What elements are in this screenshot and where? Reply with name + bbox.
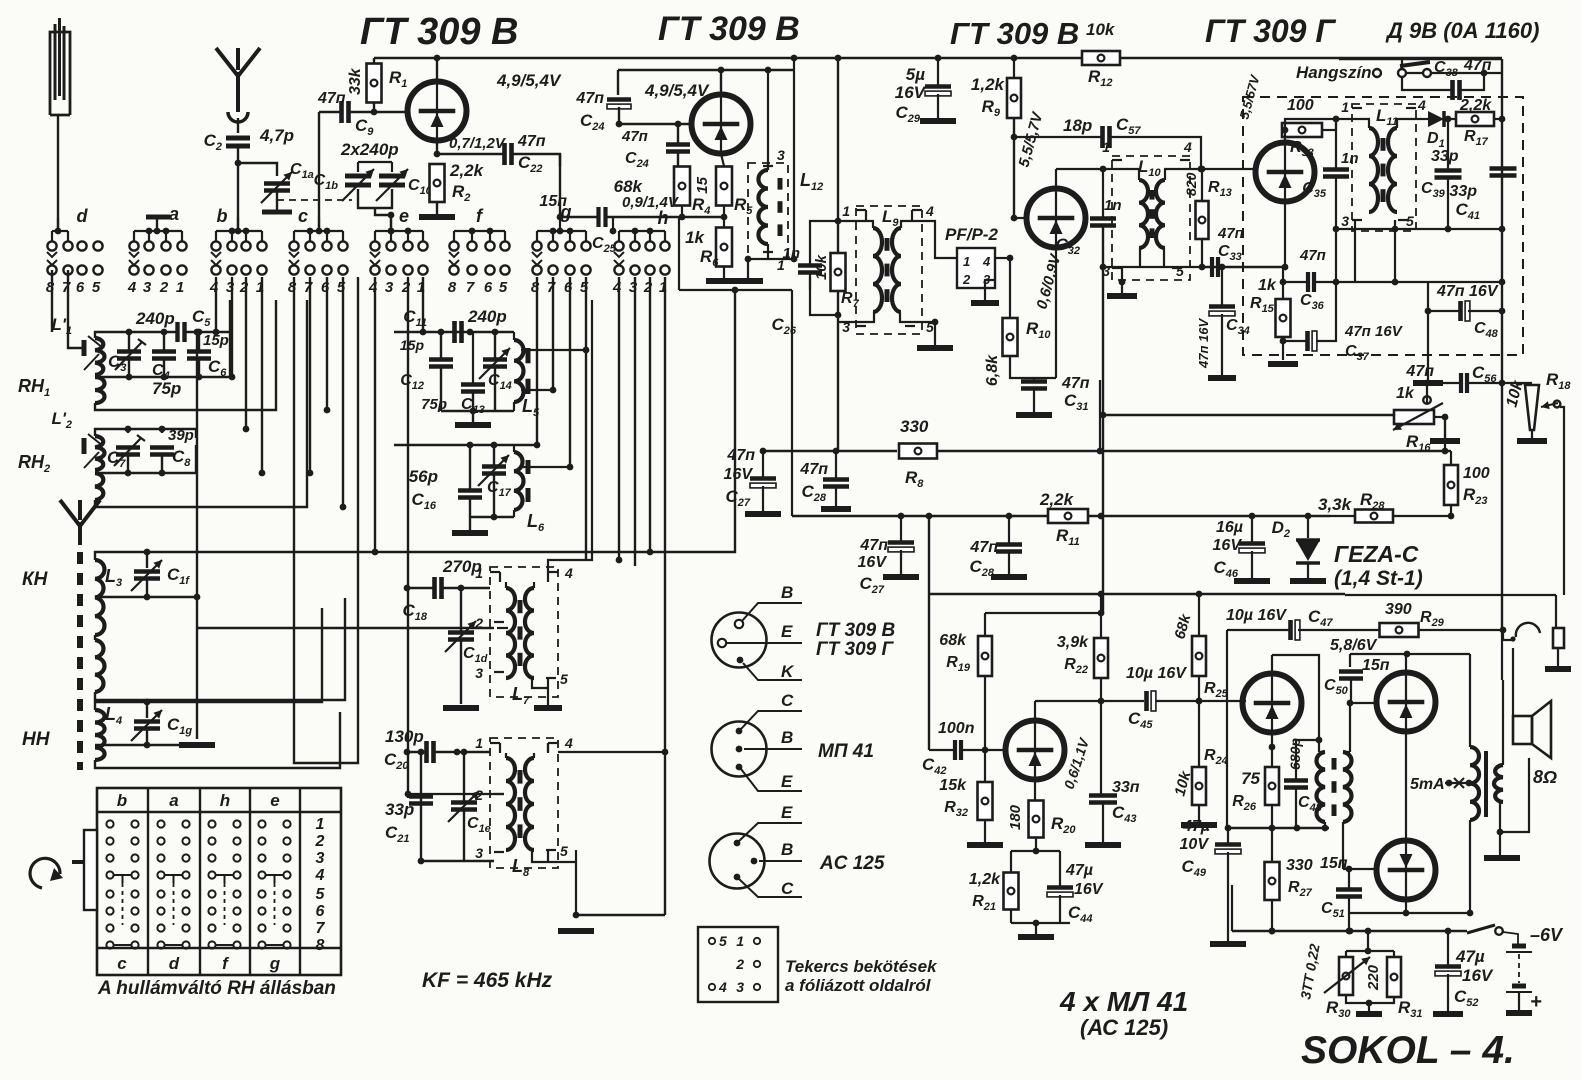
ground bbox=[1290, 578, 1326, 584]
pin 5 bbox=[1398, 213, 1414, 229]
wire bbox=[678, 217, 680, 290]
pot R30 bbox=[1324, 957, 1370, 995]
labels 8765 bbox=[531, 279, 589, 296]
svg-text:R23: R23 bbox=[1463, 485, 1488, 507]
wire bbox=[647, 277, 654, 555]
label C38 bbox=[1434, 59, 1459, 79]
wire bbox=[1560, 407, 1564, 595]
wire bbox=[469, 445, 471, 517]
core tick bbox=[82, 438, 87, 454]
label R16 bbox=[1406, 432, 1431, 454]
capacitor C44 bbox=[1047, 888, 1073, 897]
svg-text:4: 4 bbox=[718, 979, 727, 995]
wire bbox=[900, 516, 902, 574]
pin 3 bbox=[1102, 263, 1122, 279]
wire bottom bbox=[95, 445, 196, 476]
capacitor C21 bbox=[409, 797, 433, 804]
label 18p bbox=[1063, 116, 1092, 135]
wire bbox=[1448, 451, 1455, 519]
transistor T1 bbox=[408, 82, 467, 141]
wire bbox=[1251, 516, 1253, 578]
svg-text:R30: R30 bbox=[1326, 998, 1351, 1020]
wire bbox=[1355, 228, 1502, 230]
wire bus bbox=[1102, 267, 1104, 613]
svg-text:C18: C18 bbox=[402, 601, 427, 623]
svg-text:C8: C8 bbox=[172, 447, 191, 469]
svg-text:C1b: C1b bbox=[314, 172, 339, 192]
transistor T3 bbox=[1027, 189, 1086, 248]
lead B bbox=[744, 728, 802, 749]
label 47n bbox=[517, 133, 546, 150]
coil L8 secondary bbox=[525, 753, 534, 850]
caption bbox=[97, 978, 336, 999]
label c bbox=[298, 206, 308, 226]
wire bbox=[94, 635, 96, 640]
table frame bbox=[97, 788, 341, 975]
label R25 bbox=[1204, 680, 1229, 700]
wire bbox=[1269, 733, 1276, 767]
label 16V bbox=[724, 466, 754, 483]
wire bbox=[237, 146, 239, 231]
wire bbox=[1445, 780, 1472, 787]
coil L7 secondary bbox=[525, 582, 534, 678]
svg-text:B: B bbox=[781, 728, 793, 747]
pin numbers bbox=[962, 254, 991, 287]
label C36 bbox=[1300, 292, 1325, 312]
wire bbox=[762, 451, 764, 511]
svg-text:3: 3 bbox=[475, 845, 483, 861]
label AC125 bbox=[1080, 1015, 1168, 1040]
wire bbox=[307, 277, 314, 476]
wire bbox=[1059, 851, 1061, 923]
capacitor C45 bbox=[1147, 691, 1156, 711]
box L9 bbox=[856, 206, 922, 334]
resistor R10 bbox=[1003, 318, 1018, 356]
wire bbox=[1355, 220, 1395, 229]
label e bbox=[399, 206, 409, 226]
pin 5 bbox=[546, 843, 568, 859]
svg-text:C1f: C1f bbox=[167, 565, 190, 587]
wire top bbox=[125, 426, 196, 438]
wire bbox=[1014, 217, 1027, 219]
svg-text:R15: R15 bbox=[1250, 295, 1275, 315]
labels 8765 bbox=[46, 279, 101, 296]
pin 3 bbox=[1341, 213, 1362, 229]
coil L9 secondary bbox=[892, 221, 901, 312]
svg-text:C39: C39 bbox=[1421, 180, 1446, 200]
wire bbox=[1503, 932, 1518, 944]
capacitor C16 bbox=[458, 491, 482, 498]
wire bbox=[1196, 676, 1203, 704]
coil L10 secondary bbox=[1156, 169, 1165, 248]
label C5 bbox=[192, 307, 211, 329]
label 68k bbox=[939, 632, 967, 649]
wire feedback bbox=[1227, 825, 1329, 832]
variable capacitor C10 bbox=[376, 162, 408, 201]
bar bbox=[146, 217, 170, 231]
label 2,2k bbox=[449, 161, 485, 180]
svg-text:KF = 465 kHz: KF = 465 kHz bbox=[422, 969, 553, 992]
antenna bbox=[216, 48, 260, 112]
trimmer C3 bbox=[115, 339, 146, 370]
label 5,5/5,7V bbox=[1015, 109, 1046, 169]
wire bbox=[1406, 72, 1423, 74]
battery cell bbox=[1506, 986, 1532, 992]
label L5 bbox=[522, 396, 540, 419]
capacitor C27b bbox=[888, 543, 914, 552]
coil L11 primary bbox=[1369, 119, 1378, 212]
label 15n bbox=[539, 193, 567, 210]
capacitor C57 bbox=[1103, 126, 1110, 148]
wire bbox=[404, 585, 434, 592]
wire bbox=[1444, 417, 1446, 438]
wire bbox=[1033, 378, 1035, 412]
svg-text:L8: L8 bbox=[512, 856, 530, 879]
svg-text:+: + bbox=[1530, 991, 1542, 1013]
wire bbox=[1227, 852, 1229, 941]
diode D1 bbox=[1421, 111, 1444, 127]
capacitor C13 bbox=[461, 385, 485, 392]
wire bbox=[900, 312, 935, 322]
pot wiper bbox=[1541, 401, 1560, 410]
label 47u bbox=[1455, 947, 1485, 966]
svg-text:R13: R13 bbox=[1208, 179, 1232, 199]
label R2 bbox=[452, 182, 470, 204]
svg-text:5: 5 bbox=[560, 671, 568, 687]
svg-text:1: 1 bbox=[963, 254, 970, 269]
label R28 bbox=[1360, 490, 1385, 512]
wire bbox=[472, 332, 474, 384]
svg-text:5: 5 bbox=[560, 843, 568, 859]
wire bbox=[723, 206, 725, 227]
svg-text:3: 3 bbox=[316, 850, 325, 867]
wire bbox=[1010, 851, 1012, 923]
svg-text:4: 4 bbox=[1417, 97, 1426, 113]
pin 4 bbox=[548, 565, 573, 582]
wire bbox=[679, 289, 792, 291]
label 47n bbox=[859, 537, 888, 554]
wire bbox=[1512, 648, 1514, 716]
wire bbox=[1396, 118, 1421, 120]
plate bar bbox=[262, 210, 292, 215]
svg-text:f: f bbox=[476, 206, 484, 226]
wire bbox=[1319, 752, 1328, 831]
wire bbox=[1419, 627, 1506, 634]
wire bbox=[434, 749, 490, 756]
labels 8765 bbox=[448, 279, 508, 296]
node bbox=[434, 55, 441, 62]
svg-text:75: 75 bbox=[1241, 769, 1260, 788]
svg-text:C31: C31 bbox=[1064, 391, 1089, 413]
label 47n bbox=[726, 447, 755, 464]
svg-text:47п 16V: 47п 16V bbox=[1196, 318, 1211, 369]
wire bbox=[95, 300, 307, 507]
svg-text:240p: 240p bbox=[135, 309, 175, 328]
inner rail bbox=[618, 69, 794, 71]
wire bbox=[1343, 868, 1377, 870]
label R17 bbox=[1464, 128, 1489, 148]
resistor R22 bbox=[1094, 638, 1108, 678]
svg-text:2: 2 bbox=[735, 956, 744, 972]
jack hook bbox=[1510, 623, 1540, 642]
wire bbox=[129, 359, 199, 377]
svg-text:C42: C42 bbox=[922, 755, 947, 777]
wire bbox=[1444, 116, 1457, 123]
label a bbox=[169, 204, 179, 224]
svg-text:b: b bbox=[117, 791, 127, 810]
wire bbox=[1280, 279, 1307, 286]
box L7 bbox=[490, 567, 558, 697]
wire bbox=[442, 585, 490, 592]
label RH1 bbox=[18, 376, 50, 399]
label 47n bbox=[969, 539, 998, 556]
labels 4321 bbox=[612, 279, 667, 296]
resistor R27 bbox=[1265, 862, 1280, 900]
wire bbox=[1445, 450, 1451, 452]
wire bbox=[634, 277, 636, 566]
label C17 bbox=[487, 479, 512, 499]
svg-text:1k: 1k bbox=[1396, 385, 1415, 402]
svg-text:47п: 47п bbox=[517, 133, 546, 150]
node bbox=[434, 151, 441, 158]
svg-text:47п: 47п bbox=[1217, 225, 1244, 242]
svg-text:7: 7 bbox=[316, 920, 326, 937]
rail bbox=[1120, 57, 1502, 59]
svg-text:240p: 240p bbox=[467, 307, 507, 326]
svg-text:R11: R11 bbox=[1056, 526, 1080, 548]
wire bbox=[1322, 119, 1336, 130]
label 330 bbox=[900, 417, 929, 436]
svg-text:R17: R17 bbox=[1464, 128, 1489, 148]
svg-text:C25: C25 bbox=[592, 235, 617, 255]
svg-text:PF/P-2: PF/P-2 bbox=[945, 225, 998, 244]
svg-text:130p: 130p bbox=[385, 727, 424, 746]
pinout MP41 bbox=[712, 722, 767, 777]
wire bbox=[982, 676, 989, 753]
svg-text:3,9k: 3,9k bbox=[1057, 634, 1089, 651]
wire bbox=[1298, 629, 1380, 631]
label C1d bbox=[463, 645, 488, 665]
capacitor C27a bbox=[750, 479, 776, 488]
wire bbox=[1196, 591, 1203, 636]
node bbox=[835, 312, 842, 319]
svg-text:E: E bbox=[781, 772, 793, 791]
svg-text:R9: R9 bbox=[982, 97, 1001, 119]
svg-text:C51: C51 bbox=[1321, 900, 1345, 920]
wire bbox=[319, 111, 341, 113]
core bbox=[518, 600, 523, 666]
wire bbox=[1199, 166, 1206, 201]
capacitor C52 bbox=[1435, 967, 1461, 976]
capacitor C24b bbox=[666, 145, 690, 152]
wire bbox=[1469, 654, 1471, 747]
label 1n bbox=[1104, 197, 1122, 214]
wire bbox=[1346, 951, 1394, 957]
resistor R25 bbox=[1192, 636, 1206, 676]
label C44 bbox=[1068, 903, 1093, 925]
svg-text:R4: R4 bbox=[692, 195, 710, 217]
label GT309B bbox=[658, 10, 800, 48]
svg-text:R21: R21 bbox=[972, 893, 996, 913]
wire rail R11 bbox=[792, 513, 1048, 520]
svg-text:R16: R16 bbox=[1406, 432, 1431, 454]
svg-text:220: 220 bbox=[1365, 964, 1382, 991]
box L10 bbox=[1112, 156, 1190, 280]
svg-text:R8: R8 bbox=[905, 468, 924, 490]
label 47n bbox=[575, 90, 604, 107]
resistor R6 bbox=[716, 228, 732, 267]
svg-text:C16: C16 bbox=[411, 490, 436, 512]
switch group b bbox=[211, 217, 267, 275]
label R27 bbox=[1288, 879, 1313, 899]
svg-text:2: 2 bbox=[315, 833, 325, 850]
resistor R13 bbox=[1196, 201, 1209, 239]
wire top bbox=[394, 442, 537, 449]
wire bbox=[1198, 701, 1200, 822]
wire bbox=[1350, 702, 1377, 704]
capacitor C38 bbox=[1453, 80, 1460, 100]
core bbox=[1150, 190, 1155, 238]
pot R18 bbox=[1525, 385, 1539, 430]
label 100 bbox=[1463, 465, 1490, 482]
ground bbox=[733, 278, 763, 284]
svg-text:(АС 125): (АС 125) bbox=[1080, 1015, 1168, 1040]
svg-text:C3: C3 bbox=[108, 352, 126, 374]
wire pin4 up bbox=[548, 300, 592, 572]
svg-text:5µ: 5µ bbox=[906, 65, 925, 84]
label PF bbox=[945, 225, 998, 244]
lead C bbox=[739, 879, 802, 898]
label R21 bbox=[972, 893, 996, 913]
label R13 bbox=[1208, 179, 1232, 199]
tekercs box bbox=[698, 927, 778, 1002]
svg-text:16V: 16V bbox=[858, 554, 888, 571]
label L6 bbox=[527, 511, 545, 534]
label 8ohm bbox=[1533, 767, 1557, 787]
wire bbox=[569, 277, 571, 467]
svg-text:1: 1 bbox=[176, 279, 184, 296]
label 10u16V bbox=[1126, 665, 1187, 682]
contact bbox=[1423, 396, 1431, 404]
label C8 bbox=[172, 447, 191, 469]
svg-text:c: c bbox=[298, 206, 308, 226]
wire bbox=[552, 277, 554, 390]
coil TRdrv primary bbox=[1317, 752, 1325, 822]
wire bbox=[1343, 751, 1350, 753]
label MP41 bbox=[818, 741, 874, 762]
svg-text:330: 330 bbox=[900, 417, 929, 436]
lead C bbox=[741, 691, 802, 729]
wire bbox=[1055, 248, 1057, 378]
svg-text:47п: 47п bbox=[1463, 57, 1492, 74]
label 47n bbox=[1217, 225, 1244, 242]
label D1 bbox=[1427, 130, 1445, 150]
capacitor C34 bbox=[1209, 307, 1235, 316]
svg-text:C36: C36 bbox=[1300, 292, 1325, 312]
svg-text:НН: НН bbox=[22, 729, 51, 750]
node bbox=[235, 160, 242, 167]
svg-text:C56: C56 bbox=[1472, 363, 1497, 385]
svg-text:C: C bbox=[781, 691, 794, 710]
label C2 bbox=[204, 131, 222, 153]
svg-text:C: C bbox=[781, 879, 794, 898]
capacitor C5 bbox=[178, 322, 185, 342]
wire bbox=[1009, 258, 1011, 318]
label plus bbox=[1530, 991, 1542, 1013]
capacitor C48 bbox=[1284, 781, 1308, 788]
wire bbox=[146, 552, 148, 597]
svg-text:15p: 15p bbox=[400, 337, 425, 353]
label C57 bbox=[1116, 115, 1141, 137]
label C34 bbox=[1226, 317, 1250, 337]
wire base bbox=[619, 121, 692, 128]
wire bbox=[559, 217, 561, 231]
svg-text:C46: C46 bbox=[1213, 558, 1238, 580]
svg-text:47п: 47п bbox=[859, 537, 888, 554]
matrix cell b bbox=[106, 820, 138, 948]
svg-text:47п: 47п bbox=[726, 447, 755, 464]
capacitor C42 bbox=[955, 740, 961, 760]
pin 5 bbox=[1172, 263, 1184, 279]
svg-text:5,8/6V: 5,8/6V bbox=[1330, 637, 1378, 654]
box L11 bbox=[1352, 104, 1416, 231]
wire bbox=[1156, 698, 1246, 705]
label C32 bbox=[1055, 235, 1080, 257]
svg-text:ГТ 309 Г: ГТ 309 Г bbox=[816, 639, 895, 660]
lead E bbox=[727, 622, 802, 643]
labels 4321 bbox=[127, 279, 184, 296]
label C49 bbox=[1181, 857, 1206, 879]
svg-text:C49: C49 bbox=[1181, 857, 1206, 879]
svg-text:100: 100 bbox=[1463, 465, 1490, 482]
svg-text:47п: 47п bbox=[1299, 247, 1326, 264]
svg-text:h: h bbox=[220, 791, 230, 810]
wire bbox=[1442, 417, 1449, 454]
svg-text:68k: 68k bbox=[939, 632, 967, 649]
svg-text:1: 1 bbox=[1102, 139, 1110, 155]
svg-text:ГТ 309 В: ГТ 309 В bbox=[658, 10, 800, 48]
wire bbox=[1100, 613, 1102, 638]
svg-text:C27: C27 bbox=[859, 574, 884, 596]
label C1f bbox=[167, 565, 190, 587]
svg-text:3: 3 bbox=[385, 279, 394, 296]
wire bbox=[1424, 380, 1460, 387]
labels 4321 bbox=[368, 279, 425, 296]
pot R16 bbox=[1393, 403, 1443, 430]
coil TRdrv secondary bbox=[1343, 752, 1351, 822]
label 75p bbox=[421, 396, 447, 413]
svg-text:7: 7 bbox=[62, 279, 71, 296]
wire bbox=[1434, 414, 1448, 421]
svg-text:47п: 47п bbox=[621, 128, 648, 145]
wire bbox=[1008, 516, 1010, 574]
wire bbox=[809, 277, 811, 290]
wire bbox=[765, 67, 772, 170]
svg-text:C41: C41 bbox=[1455, 200, 1480, 222]
wire bbox=[677, 124, 679, 166]
svg-text:2x240p: 2x240p bbox=[340, 140, 399, 159]
wire bbox=[1296, 740, 1319, 780]
pin 3 bbox=[842, 319, 866, 335]
svg-text:ГТ 309 В: ГТ 309 В bbox=[950, 16, 1079, 51]
wire bracket bbox=[1346, 995, 1394, 1006]
svg-text:Д 9В (0А 1160): Д 9В (0А 1160) bbox=[1385, 18, 1539, 43]
wire rail R8 bbox=[760, 448, 897, 455]
svg-text:C21: C21 bbox=[385, 823, 410, 845]
svg-text:16V: 16V bbox=[1074, 881, 1104, 898]
label 6,8k bbox=[984, 354, 1001, 386]
ground bbox=[452, 530, 488, 536]
